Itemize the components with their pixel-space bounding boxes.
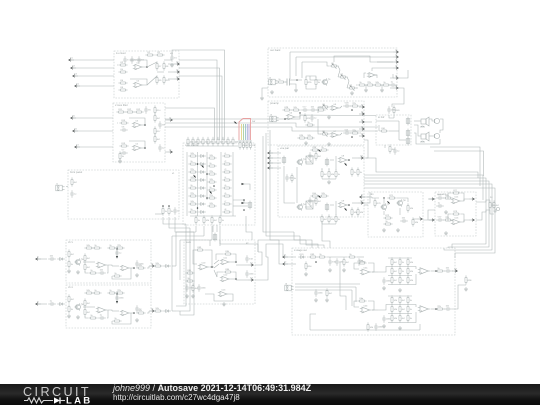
diode D5b [163, 265, 171, 268]
svg-text:C5: C5 [148, 109, 152, 112]
connector CN8 [213, 233, 217, 242]
resistor R6f [115, 289, 124, 294]
input flag B13b [429, 219, 434, 221]
svg-text:1k: 1k [165, 210, 168, 213]
resistor RL4 [188, 176, 197, 181]
svg-text:r7: r7 [224, 200, 227, 203]
resistor R50 [393, 105, 400, 114]
resistor R95 [326, 288, 333, 297]
op-amp U6 [330, 103, 340, 111]
svg-text:1k: 1k [385, 220, 388, 223]
resistor RT1 [187, 137, 194, 146]
pot P5 [320, 130, 329, 135]
wire core down1 [195, 226, 197, 232]
svg-text:-: - [421, 270, 422, 272]
wire CH5 vstub [116, 246, 118, 258]
resistor R74 [383, 220, 392, 225]
resistor R6d [92, 289, 101, 294]
svg-text:in1: in1 [70, 56, 74, 59]
block HDR enclosure [376, 115, 411, 145]
svg-text:1k: 1k [410, 317, 413, 320]
resistor R9 [156, 75, 162, 84]
wire hdr in [376, 120, 399, 122]
resistor RB2 [203, 215, 210, 224]
resistor R49b [351, 167, 357, 176]
svg-text:4k7: 4k7 [71, 253, 75, 256]
svg-text:1k: 1k [319, 253, 322, 256]
resistor RM5 [207, 186, 216, 191]
resistor R27 [357, 81, 366, 86]
input flag V3 [268, 159, 273, 164]
input flag V4 [268, 164, 273, 169]
diode D5a [57, 258, 65, 261]
resistor RM6 [207, 194, 216, 199]
output flag VO1 [358, 154, 364, 159]
svg-text:22k: 22k [367, 81, 371, 84]
node junction CH5d1 [116, 248, 118, 250]
resistor R49e [357, 207, 364, 216]
resistor R49d [351, 207, 358, 216]
input flag IN7 [75, 143, 80, 148]
svg-text:10k: 10k [190, 152, 194, 155]
svg-text:1k: 1k [71, 308, 74, 311]
op-amp U3b [418, 306, 431, 313]
svg-text:R79: R79 [453, 210, 458, 213]
wire hbus2 [364, 181, 489, 248]
arrow mark M7 [344, 207, 348, 211]
capacitor C16 [389, 81, 397, 87]
svg-text:1k: 1k [94, 289, 97, 292]
capacitor C24 [285, 174, 294, 182]
wire core down2 [203, 226, 205, 236]
connector CN6 [406, 129, 410, 138]
svg-text:s1: s1 [395, 48, 398, 51]
node junction C6d [243, 199, 245, 201]
node junction C5d [197, 207, 199, 209]
node junction P1d [284, 118, 286, 120]
resistor RL1 [188, 152, 197, 157]
svg-text:front panel: front panel [70, 171, 83, 174]
svg-text:1k: 1k [171, 210, 174, 213]
wire CH6 net [83, 306, 95, 308]
svg-text:22k: 22k [117, 244, 121, 247]
node junction S2d [235, 261, 237, 263]
svg-text:4k7: 4k7 [402, 299, 406, 302]
svg-text:1u: 1u [100, 314, 103, 317]
block PRE enclosure [268, 101, 364, 145]
capacitor C6a [48, 300, 56, 306]
input flag DR1 [360, 193, 365, 198]
arrow mark ribbon [233, 121, 237, 125]
ground G7 [191, 294, 195, 298]
block PANEL enclosure [68, 170, 179, 219]
node junction NOb [435, 308, 437, 310]
svg-text:R50: R50 [396, 109, 401, 112]
ground G10 [444, 210, 448, 214]
svg-text:U15: U15 [455, 217, 460, 220]
op-amp U14 [451, 196, 462, 205]
svg-text:1k: 1k [190, 184, 193, 187]
svg-text:1k: 1k [318, 81, 321, 84]
capacitor C9 [158, 144, 165, 152]
op-amp U2b [360, 304, 372, 313]
svg-text:s4: s4 [395, 64, 398, 67]
svg-text:1k: 1k [360, 171, 363, 174]
svg-text:R19: R19 [121, 142, 126, 145]
wire core col2 [197, 152, 199, 216]
wire core down4 [220, 226, 258, 252]
resistor RM4 [207, 178, 216, 183]
connector CN4 [325, 203, 329, 212]
capacitor C22 [308, 152, 315, 160]
resistor R5g [84, 253, 91, 262]
output flag OSC5 [393, 74, 398, 79]
svg-text:R13: R13 [136, 108, 141, 111]
op-amp U3a [418, 268, 431, 275]
svg-text:1u: 1u [162, 147, 165, 150]
svg-text:10k: 10k [394, 317, 398, 320]
output flag AO2 [469, 219, 474, 221]
output flag OSC2 [393, 53, 398, 58]
resistor R47 [328, 214, 335, 223]
wire U3 fb [129, 118, 145, 125]
svg-text:22k: 22k [209, 170, 213, 173]
resistor R36 [305, 134, 314, 139]
output flag OSC1 [393, 48, 398, 53]
node junction CH6d2 [133, 312, 135, 314]
wire hbus5 [364, 175, 483, 196]
svg-text:r1: r1 [224, 152, 227, 155]
block CH5 enclosure [66, 240, 151, 283]
svg-text:C6: C6 [122, 126, 126, 129]
wire U10 fb [193, 250, 197, 264]
svg-text:r4: r4 [224, 176, 227, 179]
resistor R9ba [357, 297, 366, 302]
wire hdr bot [384, 145, 386, 148]
node junction S3d [235, 278, 237, 280]
node junction P3d [351, 109, 353, 111]
svg-text:R7: R7 [159, 65, 163, 68]
resistor RL3 [188, 168, 197, 173]
svg-text:U2b: U2b [364, 304, 369, 307]
wire U2a fb [354, 263, 359, 269]
resistor RL6 [188, 192, 197, 197]
wire core col4 [220, 152, 222, 216]
resistor RH2 [242, 140, 249, 149]
block OUTAMP enclosure [435, 192, 476, 236]
wire core to CN1 [233, 200, 244, 203]
capacitor C35 [436, 194, 444, 200]
svg-text:U14: U14 [455, 196, 460, 199]
arrow mark M2 [209, 190, 213, 194]
wire bus v3 [179, 76, 222, 140]
svg-text:1u: 1u [119, 252, 122, 255]
wire osc diag [302, 62, 329, 66]
svg-text:10k: 10k [209, 178, 213, 181]
wire left drop [176, 224, 186, 306]
resistor R6j [112, 317, 121, 322]
resistor R43 [315, 196, 322, 205]
resistor RT8 [222, 137, 229, 146]
svg-text:1u: 1u [74, 193, 77, 196]
ground GGb [382, 324, 386, 328]
resistor RT9 [227, 137, 233, 146]
svg-text:1k: 1k [114, 317, 117, 320]
speaker SPK2 [421, 132, 430, 142]
diode DL3 [198, 171, 206, 174]
svg-text:R35: R35 [299, 134, 304, 137]
svg-text:1k: 1k [200, 140, 203, 143]
svg-text:1k: 1k [190, 208, 193, 211]
capacitor C1 [123, 56, 130, 64]
output flag CH5o [149, 262, 154, 267]
svg-text:-: - [99, 264, 100, 266]
wire stair4 [322, 222, 330, 248]
input flag IN3 [73, 72, 78, 77]
svg-text:-: - [99, 309, 100, 311]
diode DL2 [198, 163, 206, 166]
svg-text:1k: 1k [90, 269, 93, 272]
ground G6 [327, 180, 331, 184]
svg-text:U11: U11 [224, 257, 229, 260]
svg-text:d1: d1 [361, 193, 364, 196]
svg-text:U13: U13 [222, 289, 227, 292]
svg-text:2 tone filter: 2 tone filter [115, 104, 128, 107]
svg-text:R71: R71 [389, 194, 394, 197]
resistor RL5 [188, 184, 197, 189]
resistor R6a [68, 294, 75, 303]
capacitor CGba [382, 315, 391, 323]
node junction CH5d2 [133, 267, 135, 269]
wire hbus1 [364, 178, 486, 248]
node junction C4d [206, 197, 208, 199]
capacitor C6b [115, 294, 124, 302]
node junction S1d [211, 266, 213, 268]
svg-text:R10: R10 [166, 79, 171, 82]
svg-text:U7: U7 [334, 130, 338, 133]
svg-text:U5: U5 [290, 112, 294, 115]
resistor R29b [373, 81, 382, 86]
node junction OSCd [296, 79, 298, 81]
resistor R5d [92, 244, 101, 249]
wire stair3 [306, 240, 324, 248]
svg-text:22k: 22k [190, 168, 194, 171]
output flag OSC6 [393, 84, 398, 89]
resistor RH1 [239, 140, 246, 149]
svg-text:k2: k2 [246, 242, 249, 245]
svg-text:4k7: 4k7 [74, 181, 78, 184]
svg-text:10k: 10k [331, 218, 335, 221]
svg-text:n2: n2 [284, 260, 287, 263]
ground G6a [76, 315, 80, 319]
wire panel bottom [155, 213, 163, 215]
node junction C1d [197, 163, 199, 165]
svg-text:r6: r6 [224, 192, 227, 195]
resistor R17 [154, 126, 161, 135]
wire osc mid [306, 76, 316, 78]
wire core col5 [232, 152, 234, 216]
resistor RM7 [207, 202, 216, 207]
resistor RT2 [192, 137, 199, 146]
capacitor C3 [137, 56, 144, 64]
wire ribbon blue [246, 124, 248, 140]
diode DL7 [198, 203, 206, 206]
svg-text:1u: 1u [50, 300, 53, 303]
capacitor C7 [120, 149, 128, 155]
svg-text:R65: R65 [225, 268, 230, 271]
resistor R39 [319, 146, 328, 151]
block MIX1 enclosure [114, 51, 179, 98]
svg-text:io hdr: io hdr [378, 116, 385, 119]
node junction NOa [435, 270, 437, 272]
svg-text:1k: 1k [410, 299, 413, 302]
svg-text:22k: 22k [437, 305, 441, 308]
resistor RGb2a [407, 295, 413, 304]
wire ribbon violet [248, 124, 250, 140]
svg-text:R70: R70 [377, 202, 382, 205]
svg-text:10k: 10k [445, 194, 449, 197]
op-amp U15 [451, 217, 462, 226]
resistor RB4 [219, 215, 225, 224]
svg-text:1k: 1k [402, 279, 405, 282]
block OSC enclosure [268, 48, 397, 97]
capacitor C6c [98, 314, 106, 320]
svg-text:1k: 1k [294, 177, 297, 180]
resistor RGb0b [391, 304, 398, 313]
resistor R33 [350, 102, 359, 107]
resistor R22 [162, 206, 168, 215]
resistor R5 [118, 79, 127, 84]
ground G9 [382, 228, 386, 232]
svg-text:R64: R64 [225, 250, 230, 253]
resistor RGa1b [399, 266, 405, 275]
svg-text:p2: p2 [361, 110, 364, 113]
ground G3 [270, 90, 274, 94]
diode DL1 [198, 155, 206, 158]
svg-text:R12: R12 [127, 108, 132, 111]
output flag MO1 [452, 267, 457, 272]
wire hbus4 [364, 188, 495, 258]
svg-text:1k: 1k [402, 261, 405, 264]
svg-text:r5: r5 [224, 184, 227, 187]
wire U15 fb [448, 214, 451, 221]
resistor R6 [118, 86, 127, 91]
wire leftdrop2 [266, 133, 300, 236]
svg-text:4k7: 4k7 [329, 292, 333, 295]
svg-text:s6: s6 [395, 84, 398, 87]
svg-text:in2: in2 [72, 64, 76, 67]
wire U2b fb [354, 301, 359, 307]
resistor R13 [134, 108, 143, 113]
input flag V2 [268, 154, 273, 159]
svg-text:R16: R16 [121, 119, 126, 122]
capacitor C19 [310, 114, 317, 122]
wire main bottom [310, 329, 420, 331]
ground GGa [382, 286, 386, 290]
wire drv net [372, 197, 379, 198]
input flag MN2 [283, 260, 288, 265]
resistor RGa0c [391, 275, 398, 284]
svg-text:1u: 1u [391, 81, 394, 84]
resistor R65 [223, 268, 232, 273]
wire main out2 [452, 285, 466, 309]
svg-text:10k: 10k [86, 244, 90, 247]
capacitor C21 [343, 129, 351, 135]
resistor R6e [107, 289, 116, 294]
wire out jack [476, 200, 490, 202]
svg-text:drv: drv [370, 193, 374, 196]
svg-text:10k: 10k [155, 307, 159, 310]
wire ribbon rail [238, 140, 252, 142]
svg-text:4k7: 4k7 [87, 257, 91, 260]
svg-text:ch 6: ch 6 [68, 286, 73, 289]
connector CN3 [325, 158, 329, 167]
node junction A1 [146, 66, 148, 68]
resistor RL2 [188, 160, 197, 165]
resistor R6l [153, 307, 162, 312]
op-amp U6b [120, 310, 131, 316]
resistor R92 [343, 257, 350, 266]
resistor R81 [493, 200, 500, 209]
svg-text:in3: in3 [74, 72, 78, 75]
resistor RGa2c [407, 275, 414, 284]
svg-text:10k: 10k [190, 200, 194, 203]
capacitor C6d [135, 305, 142, 313]
resistor RR3 [222, 168, 231, 173]
svg-text:1k: 1k [230, 140, 233, 143]
wire chan bus2 [171, 236, 173, 311]
resistor R80 [489, 200, 496, 209]
svg-text:R90: R90 [310, 253, 315, 256]
capacitor C4 [170, 54, 177, 62]
capacitor C5d [135, 260, 144, 268]
wire pre net [297, 113, 300, 117]
resistor R76 [443, 194, 452, 199]
wire osc chain [356, 84, 357, 86]
resistor R5b [68, 259, 74, 268]
resistor RGb1a [399, 295, 406, 304]
output flag OUT4 [167, 116, 172, 121]
svg-text:10k: 10k [394, 308, 398, 311]
svg-text:1k: 1k [109, 244, 112, 247]
wire bus v5 [165, 108, 215, 140]
input flag CH6IN [36, 300, 41, 305]
wire drv link [423, 210, 435, 220]
svg-text:4k7: 4k7 [318, 155, 322, 158]
node junction C2d [206, 173, 208, 175]
svg-text:o5: o5 [151, 262, 154, 265]
resistor RT6 [212, 137, 218, 146]
svg-text:J4: J4 [490, 196, 493, 199]
resistor R48 [335, 214, 341, 223]
resistor RGa1a [399, 257, 405, 266]
capacitor C44 [374, 323, 383, 331]
svg-text:1u: 1u [397, 150, 400, 153]
input flag IN1 [69, 56, 74, 61]
block MAIN enclosure [292, 248, 455, 335]
svg-text:R9: R9 [159, 79, 163, 82]
capacitor C30 [185, 284, 194, 292]
svg-text:10k: 10k [206, 219, 210, 222]
node junction C3d [213, 185, 215, 187]
svg-text:10k: 10k [370, 326, 374, 329]
arrow mark M4 [317, 149, 321, 153]
wire main inrow [307, 256, 308, 258]
svg-text:U9: U9 [342, 200, 346, 203]
resistor R6g [84, 298, 91, 307]
ground G1 [170, 63, 174, 67]
output flag OSC3 [393, 58, 398, 63]
